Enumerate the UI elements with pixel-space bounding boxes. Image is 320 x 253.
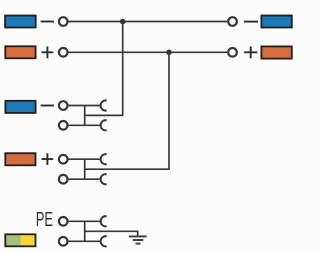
minus sign (row 1 left): [41, 21, 54, 23]
wire (row 3 upper): [69, 105, 101, 107]
disconnect contact (PE upper): [101, 216, 107, 226]
junction node B: [166, 50, 172, 56]
terminal circle (clamp, row 1 right): [228, 17, 237, 26]
plus sign (row 2 right): [244, 46, 257, 58]
wire (PE common rail): [84, 221, 86, 241]
wire (tap from node A down to row 3): [85, 22, 123, 116]
terminal circle (PE lower): [59, 237, 68, 246]
wire (tap from node B down to row 4): [85, 52, 169, 169]
orange terminal marker (row 4): [5, 153, 35, 165]
wire (row 3 lower): [69, 124, 101, 126]
wire (PE rail to earth): [85, 231, 138, 235]
wire (row 4 common rail): [84, 159, 86, 179]
minus sign (row 3): [41, 105, 54, 107]
terminal circle (row 4 lower): [59, 175, 68, 184]
terminal circle (clamp, row 2 left): [59, 48, 68, 57]
terminal circle (row 3 upper): [59, 101, 68, 110]
green-yellow terminal marker (PE): [5, 234, 35, 246]
disconnect contact (row 3 lower): [101, 120, 107, 130]
junction node A: [120, 19, 126, 25]
plus sign (row 4): [42, 153, 54, 165]
wire (PE upper): [69, 220, 101, 222]
wire (PE lower): [69, 240, 101, 242]
blue terminal marker (row 3): [5, 101, 35, 113]
terminal circle (PE upper): [59, 217, 68, 226]
terminal circle (clamp, row 1 left): [59, 17, 68, 26]
disconnect contact (row 4 upper): [101, 154, 107, 164]
orange terminal marker (plus rail, row 2 right): [261, 46, 291, 58]
blue terminal marker (minus rail, row 1 right): [261, 16, 291, 28]
terminal circle (row 4 upper): [59, 155, 68, 164]
terminal circle (row 3 lower): [59, 121, 68, 130]
minus sign (row 1 right): [244, 21, 258, 23]
wire (row 4 lower): [69, 178, 101, 180]
terminal circle (clamp, row 2 right): [228, 48, 237, 57]
disconnect contact (row 4 lower): [101, 174, 107, 184]
svg-text:PE: PE: [36, 208, 53, 231]
orange terminal marker (plus rail, row 2 left): [5, 46, 35, 58]
disconnect contact (row 3 upper): [101, 100, 107, 110]
blue terminal marker (minus rail, row 1 left): [5, 16, 36, 28]
wire (row 4 upper): [69, 158, 101, 160]
disconnect contact (PE lower): [101, 236, 107, 246]
wire (row 2 plus bus): [69, 51, 228, 53]
ground: [129, 236, 147, 243]
wire (row 1 minus bus): [69, 21, 228, 23]
plus sign (row 2 left): [42, 46, 54, 58]
wire (row 3 common rail): [84, 106, 86, 126]
